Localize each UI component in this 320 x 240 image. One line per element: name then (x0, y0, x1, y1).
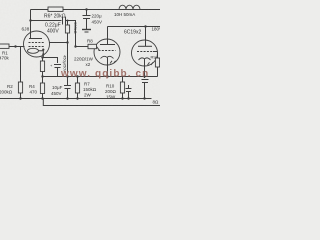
wire output node horizontal (43, 76, 158, 78)
resistor R5 (65, 21, 69, 43)
tube V3 plate bar (138, 45, 152, 47)
node rail C6 (127, 97, 129, 99)
wire g2 of V1 (49, 42, 68, 44)
wire g2 node down to output node (67, 43, 69, 77)
capacitor C4 10uF (64, 77, 71, 99)
wire plate lead into V1 (30, 21, 32, 39)
tube V2 grid dashed (99, 50, 116, 52)
node R7 top (76, 75, 78, 77)
label C3 value (92, 14, 103, 25)
wire V1 cathode tie (39, 50, 44, 58)
tube V1 cathode ellipse (28, 48, 39, 53)
wire V3 cathode lead (144, 59, 146, 78)
node V2 cathode junction (106, 75, 108, 77)
wire top B+ rail (31, 9, 161, 11)
resistor R10 (120, 77, 124, 99)
label C1 value (45, 23, 61, 35)
node V3 plate junction (144, 25, 146, 27)
wire cathode bypass branch top (43, 58, 58, 64)
label R4 (29, 84, 38, 95)
capacitor C2 cathode bypass (54, 65, 61, 77)
wire V2 cathode lead (107, 58, 109, 77)
capacitor C5 output (142, 80, 149, 99)
node plate junction (29, 19, 31, 21)
wire ground rail (0, 98, 152, 100)
node V3 cathode junction (143, 75, 145, 77)
resistor R9 (155, 52, 159, 77)
resistor R1 input series (0, 44, 25, 48)
tube V2 cathode arc (101, 56, 114, 58)
node input grid junction (14, 45, 16, 47)
wire plate node horizontal (31, 20, 62, 22)
label R7 (83, 82, 97, 98)
capacitor C6 small (126, 85, 132, 99)
tube V1 grid g2 dashed (29, 46, 46, 48)
node rail R10 (121, 97, 123, 99)
wire grid leak drop (20, 47, 22, 83)
resistor R2 (18, 82, 22, 99)
wire after C1 to corner (66, 21, 76, 47)
resistor R8 grid stopper (74, 44, 99, 50)
resistor R3 cathode (40, 58, 44, 77)
tube V2 6C19 envelope (94, 39, 120, 65)
inductor L1 choke (119, 5, 140, 9)
node cathode top (41, 56, 43, 58)
tube V3 cathode arc (139, 58, 151, 60)
tube V1 6J8 envelope (24, 31, 50, 57)
wire V2 plate drop (107, 27, 109, 45)
tube V3 6C19 envelope (132, 40, 158, 66)
label C4 value (51, 85, 63, 96)
wire output return (43, 99, 160, 106)
node rail C4 (66, 97, 68, 99)
ground symbol (82, 30, 91, 33)
node R5 top junction (67, 20, 69, 22)
node rail C5 (143, 97, 145, 99)
node C4 top (66, 75, 68, 77)
node rail R2 (19, 97, 21, 99)
label R1 (0, 51, 10, 61)
capacitor C3 220uF filter (83, 8, 91, 29)
resistor R4 (40, 77, 44, 99)
node screen grid junction (66, 41, 68, 43)
wire V3 plate drop (145, 27, 147, 47)
wire 180V plate rail (108, 26, 161, 28)
tube V2 heater (110, 61, 116, 64)
tube V1 plate bar (29, 38, 42, 40)
tube V2 plate bar (100, 44, 115, 46)
node V1 g3 tie (42, 49, 44, 51)
node V1 cathode tie (42, 53, 44, 55)
tube V3 heater (148, 62, 154, 65)
label R10 (105, 84, 117, 100)
node rail R4 (41, 97, 43, 99)
tube V1 grid g3 dashed (29, 42, 46, 44)
node feedback left junction (41, 75, 43, 77)
capacitor C1 0.22uF (63, 17, 66, 25)
resistor R7 (75, 77, 79, 99)
wire V3 grid out (153, 51, 158, 53)
resistor R6 (48, 7, 63, 11)
wire left drop from rail to plate node (30, 10, 32, 21)
label R2 (0, 84, 13, 95)
node rail R7 (76, 97, 78, 99)
tube V3 grid dashed (137, 51, 153, 53)
